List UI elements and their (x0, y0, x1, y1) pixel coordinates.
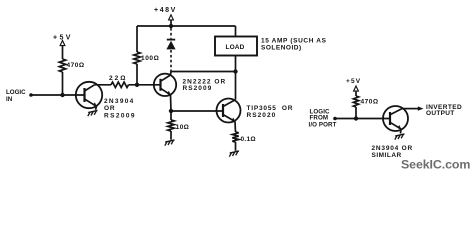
ground under Q4 (395, 134, 404, 136)
Q2 label 2N2222 OR RS2009 (183, 79, 227, 92)
resistor R6 470Ω right (353, 96, 358, 107)
transistor Q2 2N2222 (154, 74, 176, 96)
wire Q4 collector to output (402, 108, 418, 110)
ground under 0.1Ω (230, 151, 239, 153)
resistor R1 470Ω (59, 59, 65, 72)
wire Q3 collector to load (235, 56, 237, 100)
LOGIC IN terminal dot (29, 93, 33, 97)
wire 22Ω to Q2 base (129, 84, 161, 86)
svg-text:22Ω: 22Ω (109, 75, 127, 82)
wire down to 10Ω (170, 111, 172, 120)
wire to Q4 base (335, 118, 390, 120)
wire 470Ω to node (355, 107, 357, 119)
svg-text:SIMILAR: SIMILAR (372, 152, 402, 159)
Q3 label TIP3055 OR RS2020 (247, 105, 294, 119)
svg-text:RS2009: RS2009 (104, 113, 136, 120)
wire +5V down (355, 91, 357, 96)
svg-text:RS2020: RS2020 (247, 112, 277, 119)
power +5V arrow (right) (354, 86, 359, 91)
INVERTED OUTPUT label (426, 104, 462, 117)
wire to Q3 base (171, 110, 223, 112)
ground under Q1 (88, 110, 97, 112)
Q1 label 2N3904 OR RS2009 (104, 98, 136, 120)
svg-text:10Ω: 10Ω (176, 124, 189, 131)
wire Q1 collector to 22Ω (95, 84, 112, 86)
wire Q2 emitter down (170, 95, 173, 111)
svg-text:2N3904 OR: 2N3904 OR (372, 145, 414, 152)
Q4 label 2N3904 OR SIMILAR (372, 145, 414, 159)
wire 10Ω to ground (170, 131, 172, 140)
wire node A to 100Ω (136, 64, 138, 85)
junction dot right (354, 116, 358, 120)
svg-text:I/O PORT: I/O PORT (309, 121, 337, 128)
svg-text:LOAD: LOAD (225, 44, 244, 51)
svg-text:SOLENOID): SOLENOID) (261, 44, 302, 51)
resistor R2 22Ω (111, 82, 129, 87)
svg-text:+5V: +5V (53, 35, 73, 42)
LOGIC FROM I/O PORT label (309, 108, 337, 128)
node A junction dot (135, 83, 139, 87)
svg-text:IN: IN (6, 96, 13, 103)
junction dot at 470Ω (60, 93, 64, 97)
svg-text:+5V: +5V (346, 78, 361, 85)
wire rail down to load (235, 26, 237, 37)
wire logic-in to Q1 base (31, 94, 84, 96)
wire 100Ω to rail (136, 26, 138, 52)
power +5V arrow (left) (60, 41, 65, 46)
wire Q3 emitter down (234, 122, 237, 133)
resistor R4 10Ω (168, 120, 174, 131)
junction dot collector node (233, 69, 237, 73)
svg-text:470Ω: 470Ω (361, 98, 379, 105)
svg-text:100Ω: 100Ω (141, 55, 159, 62)
wire +5V supply (62, 46, 64, 59)
diode D1 dashed flyback (166, 28, 175, 72)
svg-text:2N3904: 2N3904 (104, 98, 135, 105)
junction dot emitter node (169, 109, 173, 113)
svg-text:SeekIC.com: SeekIC.com (401, 158, 470, 172)
ground under 10Ω (165, 140, 174, 142)
svg-text:+48V: +48V (154, 7, 177, 14)
svg-text:RS2009: RS2009 (183, 85, 213, 92)
terminal dot I/O port (333, 117, 337, 121)
LOAD box (215, 37, 257, 56)
wire 0.1Ω to ground (235, 142, 237, 151)
+48V rail wire (137, 25, 236, 27)
power +48V arrow (170, 20, 172, 26)
transistor Q1 2N3904 (76, 82, 102, 110)
svg-text:0.1Ω: 0.1Ω (241, 136, 256, 143)
transistor Q4 2N3904 (383, 106, 408, 134)
svg-text:OR: OR (104, 105, 115, 112)
svg-text:470Ω: 470Ω (67, 62, 85, 69)
svg-text:TIP3055 OR: TIP3055 OR (247, 105, 294, 112)
wire Q2 collector to node (171, 72, 236, 76)
output arrowhead (418, 106, 424, 110)
annotation 15 AMP (SUCH AS SOLENOID) (261, 38, 327, 52)
junction dot on rail (169, 24, 173, 28)
transistor Q3 TIP3055 (217, 99, 241, 123)
resistor R5 0.1Ω (232, 132, 238, 142)
svg-text:OUTPUT: OUTPUT (426, 110, 455, 117)
resistor R3 100Ω (134, 52, 140, 64)
